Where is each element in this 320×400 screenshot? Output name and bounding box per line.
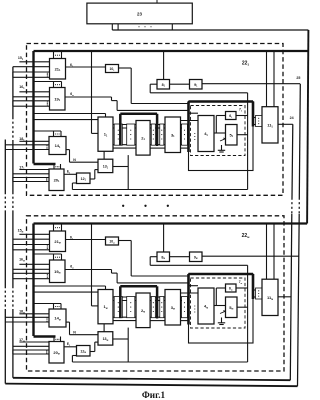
feedback vertical right of section 1 — [247, 93, 249, 190]
wire N output of 14м — [66, 321, 70, 323]
block 23 — [87, 3, 192, 24]
input 17м bus channel — [13, 349, 49, 351]
wire E output of 20м — [64, 346, 77, 348]
block 20м thick top feed wire — [34, 335, 56, 337]
wire 61 output to feedback vertical — [236, 115, 248, 117]
ground symbol under 5м — [221, 318, 223, 323]
block 14м — [49, 309, 66, 327]
output channel dots between box and 111 — [253, 117, 262, 119]
block 21м top notch wires — [53, 224, 55, 232]
wire 81 left feedback loop — [150, 83, 157, 85]
wire output of 10м — [119, 240, 132, 242]
input 181 wire b — [5, 144, 49, 146]
wire from frame left to 1м left — [34, 291, 99, 293]
wire from 121 to 131 — [90, 178, 95, 180]
wire 41 up to 61 — [215, 116, 217, 134]
block 19м — [50, 260, 66, 283]
svg-text:N: N — [73, 158, 76, 162]
input 15м wire b — [13, 238, 50, 240]
input 16м bus channel — [13, 272, 50, 274]
feedback riser to 21 — [127, 155, 129, 189]
block 8м feed wire from frame top — [163, 224, 165, 253]
input 16м wire a — [19, 263, 49, 265]
block 2м — [136, 293, 150, 328]
inner dashed box 71 — [191, 106, 246, 156]
input 181 wire a — [19, 140, 49, 142]
gap channel between 1м and 2м — [113, 296, 136, 298]
bottom wrap wire outer — [5, 384, 297, 387]
svg-text:Фиг.1: Фиг.1 — [142, 390, 166, 400]
svg-text:23: 23 — [137, 12, 142, 17]
block 20м — [49, 342, 64, 364]
input 171 wire b — [13, 173, 49, 175]
arrow into 51 — [220, 138, 225, 141]
wire from frame left to 11 left — [34, 119, 99, 121]
dots under block 23 — [138, 26, 139, 27]
block 12м — [77, 346, 91, 357]
input 181 wire c — [5, 149, 49, 151]
ground symbol under 51 — [221, 145, 223, 150]
block 141 top notch wire — [34, 130, 62, 132]
input 151 wire b — [13, 66, 50, 68]
block 111 feed wires from frame top — [266, 51, 268, 107]
block 111 — [262, 107, 278, 143]
top border tick — [156, 0, 158, 4]
block 211 — [50, 59, 66, 80]
converter unit thick box of section 2 — [189, 274, 254, 343]
block 121 — [77, 173, 91, 184]
wire 41 to 51 — [214, 132, 226, 134]
wire 61 output of 211 — [66, 66, 106, 68]
feedback bottom rail of section 2 — [72, 361, 247, 363]
input 16м wire b — [13, 268, 50, 270]
block 191 — [50, 88, 66, 111]
wire 13м right tap — [113, 338, 128, 340]
output bus 25 vertical — [299, 84, 300, 198]
gap channel between 2м and 3м — [150, 296, 165, 298]
feedback vertical right of section 2 — [247, 265, 249, 362]
right feed column from 23 — [307, 30, 308, 224]
gap channel between 31 and thick box — [181, 124, 189, 126]
converter unit thick box of section 1 — [189, 102, 254, 171]
block 9м — [190, 252, 203, 262]
input 18м wire a — [19, 313, 49, 315]
block 13м — [98, 332, 113, 345]
output channel dots between box and 11м — [253, 289, 262, 291]
block 11 — [98, 117, 113, 151]
wire 51 right to feedback vertical — [237, 134, 248, 136]
block 191 top notch wire — [34, 81, 62, 83]
block 211 top notch wires — [53, 51, 55, 59]
wire 8м to 9м — [170, 256, 190, 258]
section 1 frame left thick bus — [32, 51, 34, 164]
wire 4м to 5м — [214, 305, 226, 307]
block 11м feed wires from frame top — [266, 224, 268, 280]
block 201 thick top feed wire — [34, 163, 56, 165]
wire E output of 201 — [64, 173, 77, 175]
input 17м wire b — [13, 345, 49, 347]
input 15м wire a — [19, 233, 49, 235]
wire 31 to 41 — [181, 120, 199, 122]
feedback riser to 2м — [127, 328, 129, 362]
wire 4м up to 6м — [215, 288, 217, 306]
input 171 wire a — [19, 169, 49, 171]
thick bus arc over 21 — [120, 113, 157, 116]
inter-section repetition dots — [122, 205, 124, 207]
input 17м wire a — [19, 341, 49, 343]
wire 24 run of section 1 — [278, 123, 293, 125]
block 81 feed wire from frame top — [163, 51, 165, 80]
wire into 4м inside box — [189, 285, 199, 287]
wire from frame top down to 1м left mid — [91, 224, 93, 306]
input 15м bus channel — [13, 244, 50, 246]
block 5м — [226, 297, 238, 318]
left bus B — [4, 140, 6, 193]
block 11м — [262, 279, 278, 315]
left bus A — [12, 67, 14, 117]
block 51 — [226, 125, 238, 146]
input 161 wire a — [19, 91, 49, 93]
block 141 — [49, 137, 66, 155]
wire 6m output of 19м — [65, 269, 112, 271]
dots column left of 41 — [194, 133, 195, 134]
wire 6м output of 21м — [66, 239, 106, 241]
block 31 — [165, 117, 181, 153]
thick bus arc over 2м — [120, 285, 157, 288]
block 10м — [106, 237, 119, 245]
block 23 output stubs — [111, 24, 113, 30]
wire 131 right tap — [113, 166, 128, 168]
block 21м — [50, 231, 66, 252]
wire 25 run of section 2 — [202, 255, 299, 257]
wire 8м left feedback loop — [150, 256, 157, 258]
inner dashed box 7м — [191, 278, 246, 328]
wire from frame left to 1м top — [34, 285, 106, 287]
input 18м wire b — [5, 316, 49, 318]
input 161 wire b — [13, 96, 50, 98]
block 41 — [198, 116, 214, 152]
svg-text:24: 24 — [290, 116, 294, 120]
dots column left of 4м — [194, 305, 195, 306]
block 201 — [49, 169, 64, 191]
gap channel between 21 and 31 — [150, 124, 165, 126]
bottom wrap wire inner — [13, 378, 290, 380]
block 4м — [198, 288, 214, 324]
section 1 frame top wire — [34, 50, 309, 52]
wire from 12м to 13м — [90, 351, 95, 353]
wire output of 101 — [119, 67, 132, 69]
section 2 dashed border 22 — [27, 216, 285, 371]
input 151 bus channel — [13, 71, 50, 73]
gap channel between 11 and 21 — [113, 124, 136, 126]
input 171 bus channel — [13, 177, 49, 179]
svg-text:N: N — [73, 330, 76, 334]
wire from 23 to sections — [112, 29, 308, 31]
block 8м — [157, 252, 170, 262]
block 19м top notch wire — [34, 253, 62, 255]
block 6м small — [226, 284, 237, 292]
block 91 — [190, 80, 203, 90]
section 1 dashed border 22 — [27, 44, 284, 196]
feedback bottom rail of section 1 — [72, 189, 247, 191]
block 131 — [98, 159, 113, 172]
block 81 — [157, 80, 170, 90]
arrow into 5м — [220, 310, 225, 313]
block 61 small — [226, 112, 237, 120]
wire from frame top down to 11 left mid — [91, 51, 93, 133]
block 1м — [98, 290, 113, 324]
wire from 121 to bottom rail — [72, 182, 76, 184]
block 14м top notch wire — [34, 303, 62, 305]
input 151 wire a — [19, 61, 49, 63]
svg-text:25: 25 — [296, 76, 300, 80]
block 3м — [165, 290, 181, 326]
wire 3м to 4м — [181, 292, 199, 294]
wire from 12м to bottom rail — [72, 355, 76, 357]
input 161 bus channel — [13, 100, 50, 102]
output bus 24 vertical — [291, 124, 294, 197]
wire 6м output to feedback vertical — [236, 287, 248, 289]
wire 131 top to 11 — [103, 151, 105, 159]
gap channel between 3м and thick box — [181, 296, 189, 298]
section 2 frame left thick bus — [32, 224, 34, 337]
wire from frame left to 11 top — [34, 113, 106, 115]
wire 81 to 91 — [170, 83, 190, 85]
wire 6m output of 191 — [65, 96, 112, 98]
wire into 41 inside box — [189, 112, 199, 114]
block 101 — [106, 65, 119, 73]
wire 24 run of section 2 — [278, 296, 291, 298]
block 21 — [136, 121, 150, 156]
wire 13м top to 1м — [103, 324, 105, 332]
section 2 frame top wire — [34, 222, 308, 224]
wire 5м right to feedback vertical — [237, 306, 248, 308]
wire N output of 141 — [66, 149, 70, 151]
wire 25 run of section 1 — [202, 83, 300, 85]
input 18м wire c — [5, 321, 49, 323]
